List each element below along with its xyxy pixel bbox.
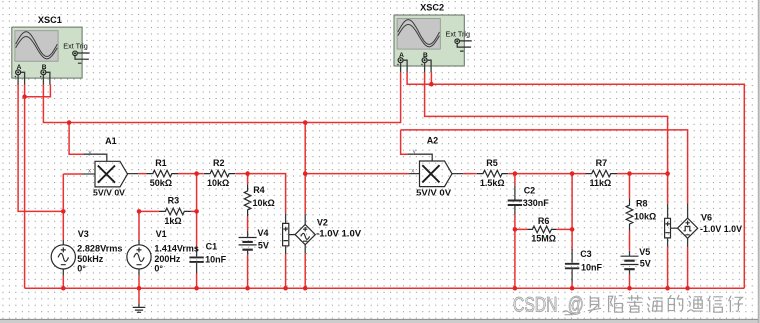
svg-text:5V: 5V bbox=[640, 258, 651, 268]
svg-text:10nF: 10nF bbox=[205, 255, 227, 265]
svg-text:50kΩ: 50kΩ bbox=[150, 178, 172, 188]
svg-text:R7: R7 bbox=[596, 158, 608, 168]
svg-text:B: B bbox=[42, 64, 47, 71]
svg-text:R4: R4 bbox=[253, 185, 265, 195]
svg-text:C1: C1 bbox=[206, 242, 218, 252]
svg-text:50kHz: 50kHz bbox=[77, 254, 104, 264]
svg-text:R5: R5 bbox=[486, 158, 498, 168]
svg-text:2.828Vrms: 2.828Vrms bbox=[77, 244, 122, 254]
svg-text:Ext Trig: Ext Trig bbox=[446, 32, 471, 39]
svg-text:XSC2: XSC2 bbox=[420, 3, 444, 13]
svg-text:1.5kΩ: 1.5kΩ bbox=[480, 178, 505, 188]
svg-text:B: B bbox=[423, 52, 428, 59]
svg-text:10kΩ: 10kΩ bbox=[253, 198, 275, 208]
svg-text:-1.0V 1.0V: -1.0V 1.0V bbox=[316, 229, 361, 239]
svg-text:5V: 5V bbox=[258, 241, 269, 251]
svg-text:R6: R6 bbox=[538, 216, 550, 226]
svg-text:10kΩ: 10kΩ bbox=[634, 212, 656, 222]
svg-text:200Hz: 200Hz bbox=[154, 254, 181, 264]
svg-text:R2: R2 bbox=[213, 158, 225, 168]
svg-text:V4: V4 bbox=[258, 228, 269, 238]
svg-text:CSDN: CSDN bbox=[513, 293, 558, 316]
svg-text:10kΩ: 10kΩ bbox=[207, 178, 229, 188]
svg-text:V3: V3 bbox=[78, 229, 89, 239]
svg-text:C2: C2 bbox=[524, 186, 536, 196]
svg-text:0°: 0° bbox=[154, 264, 163, 274]
svg-text:11kΩ: 11kΩ bbox=[590, 178, 612, 188]
svg-text:V2: V2 bbox=[317, 217, 328, 227]
svg-text:A: A bbox=[399, 52, 404, 59]
svg-text:V5: V5 bbox=[639, 247, 650, 257]
svg-text:XSC1: XSC1 bbox=[38, 15, 62, 25]
svg-text:1kΩ: 1kΩ bbox=[164, 216, 181, 226]
svg-text:A2: A2 bbox=[427, 136, 439, 146]
svg-text:10nF: 10nF bbox=[581, 262, 603, 272]
svg-text:C3: C3 bbox=[580, 249, 592, 259]
svg-text:330nF: 330nF bbox=[523, 198, 550, 208]
svg-text:R8: R8 bbox=[636, 199, 648, 209]
svg-text:1.414Vrms: 1.414Vrms bbox=[154, 244, 199, 254]
svg-text:-1.0V 1.0V: -1.0V 1.0V bbox=[700, 224, 742, 234]
svg-text:5V/V 0V: 5V/V 0V bbox=[416, 188, 451, 198]
svg-text:V1: V1 bbox=[156, 229, 167, 239]
svg-text:0°: 0° bbox=[77, 264, 86, 274]
svg-text:A1: A1 bbox=[105, 136, 117, 146]
svg-text:15MΩ: 15MΩ bbox=[531, 234, 556, 244]
svg-text:R3: R3 bbox=[168, 196, 180, 206]
svg-text:R1: R1 bbox=[155, 158, 167, 168]
svg-text:Ext Trig: Ext Trig bbox=[63, 44, 88, 51]
svg-text:V6: V6 bbox=[701, 213, 712, 223]
svg-text:A: A bbox=[17, 64, 22, 71]
svg-text:5V/V 0V: 5V/V 0V bbox=[93, 188, 125, 198]
